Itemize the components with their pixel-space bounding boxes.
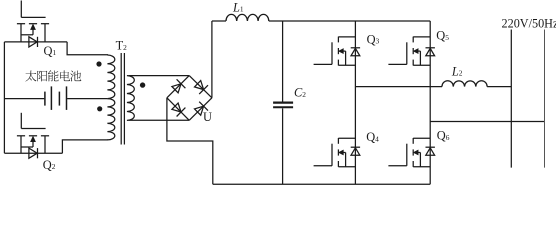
- diode : Q5 body diode: [426, 48, 435, 56]
- wire : top rail right: [269, 20, 430, 22]
- transformer T2 secondary winding: [127, 76, 134, 121]
- wire : L2 to output line 1: [487, 86, 511, 88]
- inductor L2: [442, 81, 487, 87]
- wire : mid rail node A-B: [355, 86, 442, 88]
- wire : bridge negative to bottom rail (staircase): [167, 98, 213, 185]
- diode D2 (bridge top-right): [195, 81, 204, 90]
- svg-text:C2: C2: [294, 86, 306, 100]
- diode D1 (bridge top-left): [172, 84, 181, 93]
- wire : secondary bottom lead: [129, 119, 190, 121]
- wire : C2 top: [282, 21, 284, 102]
- wire : battery right lead to center tap: [67, 98, 107, 100]
- wire : top rail left: [212, 20, 226, 22]
- svg-text:T2: T2: [116, 39, 128, 53]
- inductor L1: [226, 14, 269, 21]
- transistor Q3: [314, 37, 356, 66]
- wire : output terminal line 2: [544, 30, 546, 168]
- diode : Q6 body diode: [426, 147, 435, 155]
- transistor Q5: [388, 37, 430, 66]
- wire : Q2 main wire: [4, 152, 62, 154]
- wire : node B to output line 2: [430, 121, 544, 123]
- wire : Q1 main wire: [4, 41, 67, 43]
- transformer T2 primary winding: [107, 55, 114, 140]
- svg-text:Q6: Q6: [437, 129, 450, 143]
- wire : output terminal line 1: [510, 30, 512, 168]
- node : primary dot bottom: [97, 106, 102, 111]
- diode : Q1 body diode: [29, 37, 38, 47]
- label : solar battery text 太阳能电池: [25, 70, 81, 81]
- wire : H-bridge leg 2: [429, 21, 431, 184]
- svg-text:L2: L2: [451, 64, 463, 78]
- transistor Q4: [314, 138, 356, 167]
- diode D4 (bridge bottom-right): [195, 106, 204, 115]
- svg-text:Q1: Q1: [44, 44, 57, 58]
- battery B1 (solar cell): [45, 86, 67, 110]
- wire : Q1 to transformer top: [67, 42, 108, 55]
- svg-text:L1: L1: [232, 0, 244, 14]
- bridge rectifier U : diamond: [167, 76, 212, 121]
- transistor Q2: [17, 113, 49, 153]
- node : primary dot top: [96, 61, 101, 66]
- svg-text:U: U: [203, 110, 212, 124]
- wire : bridge positive riser: [211, 21, 213, 98]
- capacitor C2: [273, 103, 293, 108]
- svg-text:Q5: Q5: [436, 29, 449, 43]
- transformer T2 core: [121, 53, 124, 145]
- wire : bottom rail: [213, 183, 430, 185]
- diode : Q4 body diode: [351, 147, 360, 155]
- wire : H-bridge leg 1: [354, 21, 356, 184]
- transistor Q1: [17, 1, 49, 42]
- wire : battery left lead: [4, 98, 44, 100]
- wire : C2 bottom: [282, 108, 284, 184]
- wire : Q2 to transformer bottom: [62, 140, 108, 153]
- node : secondary dot: [140, 82, 145, 87]
- diode : Q2 body diode: [29, 148, 38, 158]
- svg-text:220V/50Hz: 220V/50Hz: [502, 17, 556, 31]
- wire : left rail: [3, 42, 5, 153]
- svg-text:Q2: Q2: [43, 158, 56, 172]
- svg-text:Q3: Q3: [367, 32, 380, 46]
- diode D3 (bridge bottom-left): [172, 103, 181, 112]
- wire : secondary top lead: [129, 75, 190, 77]
- transistor Q6: [388, 138, 430, 167]
- svg-text:Q4: Q4: [366, 130, 379, 144]
- diode : Q3 body diode: [351, 48, 360, 56]
